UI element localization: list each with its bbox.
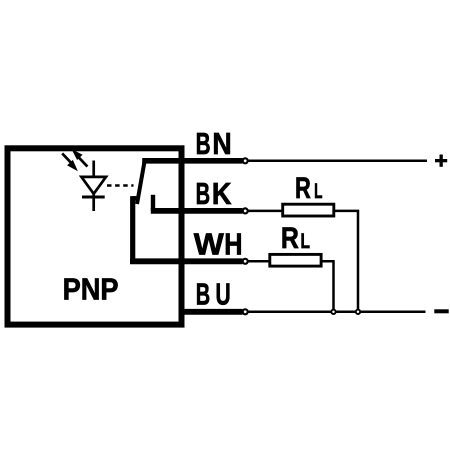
resistor RL1 [283, 204, 334, 216]
dashed actuation link [107, 184, 134, 187]
svg-text:R: R [295, 172, 311, 205]
svg-text:PNP: PNP [63, 271, 119, 306]
photodiode D1 [81, 161, 106, 212]
svg-text:R: R [281, 222, 299, 255]
label RL1 [295, 172, 323, 205]
wire WH to resistor (thin) [248, 260, 271, 263]
svg-text:K: K [212, 176, 232, 211]
label BN [196, 126, 232, 161]
wire BN to plus (thin) [248, 160, 427, 163]
terminal BU [243, 309, 248, 314]
svg-text:L: L [301, 230, 310, 253]
svg-text:L: L [314, 180, 322, 203]
label WH [194, 226, 243, 261]
sensor box [8, 148, 182, 324]
label BU [196, 277, 231, 312]
switch lever [137, 161, 145, 204]
terminal BK [243, 208, 248, 213]
junction circle RL2-BU [331, 310, 335, 314]
svg-text:U: U [216, 277, 231, 312]
resistor RL2 [270, 254, 321, 266]
label RL2 [281, 222, 310, 255]
svg-text:H: H [224, 226, 242, 261]
svg-text:W: W [194, 226, 225, 261]
terminal WH [243, 259, 248, 264]
switch fixed contact to WH [133, 196, 140, 261]
light arrow outgoing [73, 151, 87, 167]
junction circle RL1-BU [356, 310, 360, 314]
wire BK to resistor (thin) [248, 210, 284, 213]
minus terminal [434, 309, 448, 313]
light arrow incoming [62, 153, 76, 169]
terminal BN [243, 158, 248, 163]
wire BU to minus (thin) [248, 311, 426, 314]
svg-text:B: B [196, 277, 210, 312]
wire RL2 to BU junction [321, 261, 334, 312]
wire BK (thick) [151, 208, 243, 214]
wire WH (thick) [130, 258, 243, 264]
svg-text:B: B [196, 126, 211, 161]
switch fixed contact to BK [151, 195, 155, 211]
svg-text:B: B [196, 176, 210, 211]
wire BN (thick) [142, 158, 242, 164]
plus terminal [435, 155, 447, 167]
wire RL1 to BU junction [334, 211, 358, 312]
label BK [196, 176, 232, 211]
wire BU (thick) [179, 309, 243, 315]
svg-text:N: N [212, 126, 231, 161]
